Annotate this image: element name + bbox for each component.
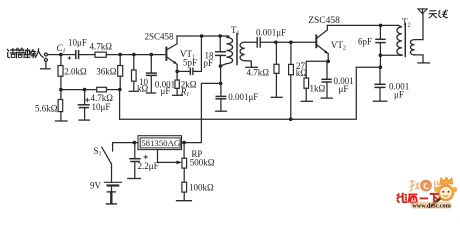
transformer T1 core [236, 34, 238, 65]
svg-text:6pF: 6pF [358, 37, 372, 47]
terminal input jack top [44, 53, 61, 56]
node junction dot rail 5pF [200, 34, 204, 38]
ground mic [41, 68, 51, 70]
ground battery [106, 192, 116, 204]
svg-text:kΩ: kΩ [137, 83, 149, 93]
capacitor 0.001uF vertical (base) [146, 55, 156, 93]
node 话筒输入 microphone input label (hand-drawn CJK) [7, 48, 43, 58]
terminal input jack bottom [44, 58, 47, 68]
transformer T1 primary winding [221, 36, 233, 66]
transformer T2 core [404, 24, 406, 57]
transformer T2 secondary winding [410, 40, 414, 55]
watermark www.dzsc.com [411, 202, 452, 210]
resistor 4.7k horizontal (series) [95, 52, 106, 57]
wire row2 [61, 89, 97, 91]
resistor 5.6k vertical [56, 90, 68, 121]
watermark 找IC片 faint orange text [409, 180, 442, 191]
resistor 10k vertical [129, 55, 138, 92]
wire IC right pin [182, 142, 185, 144]
svg-text:36kΩ: 36kΩ [96, 67, 117, 77]
wiper arrowhead [177, 161, 182, 165]
node junction dot RP top [182, 141, 186, 145]
capacitor 6pF vertical [376, 25, 385, 67]
wire [61, 54, 75, 56]
transformer T2 primary winding [397, 25, 402, 55]
wire [107, 89, 120, 91]
wire supply branch to 581350AG [184, 83, 221, 142]
resistor 2.0k vertical [58, 55, 63, 90]
resistor R1 2k vertical [173, 80, 183, 95]
svg-text:10μF: 10μF [68, 38, 87, 48]
switch S1 [102, 143, 138, 164]
capacitor 0.001uF tank [373, 67, 386, 101]
node junction dot 10k top [132, 53, 136, 57]
svg-text:581350AG: 581350AG [141, 138, 181, 148]
svg-text:4.7kΩ: 4.7kΩ [90, 41, 113, 51]
node 天线 antenna label (hand-drawn CJK) [429, 10, 448, 18]
wire [79, 54, 95, 56]
resistor 100k vertical [177, 182, 192, 201]
node junction dot row2 left [59, 88, 63, 92]
transistor VT2 ZSC458 [316, 25, 328, 61]
ground T1 secondary [246, 66, 257, 68]
capacitor 0.001uF series coupling [257, 38, 316, 47]
svg-text:2.0kΩ: 2.0kΩ [64, 67, 87, 77]
node junction dot tank bottom [379, 65, 383, 69]
svg-text:www.dzsc.com: www.dzsc.com [412, 203, 451, 209]
node junction dot 18pF bottom [219, 64, 223, 68]
svg-text:0.001μF: 0.001μF [228, 92, 258, 102]
svg-text:kΩ: kΩ [296, 68, 308, 78]
capacitor C1 10uF electrolytic [68, 51, 79, 60]
svg-text:2SC458: 2SC458 [145, 32, 175, 42]
node junction dot 27k top [289, 41, 293, 45]
svg-text:μF: μF [339, 84, 349, 94]
battery 9V [105, 164, 122, 192]
wire secondary bottom [415, 55, 423, 62]
wire 6pF bottom to T2 [380, 54, 402, 56]
node junction dot 6pF bottom [379, 53, 383, 57]
wire rail2 top right [327, 24, 398, 26]
svg-text:500kΩ: 500kΩ [190, 157, 215, 167]
capacitor 5pF horizontal [177, 36, 201, 74]
resistor 1k vertical [301, 78, 312, 101]
svg-text:ZSC458: ZSC458 [308, 16, 340, 26]
potentiometer RP 500k [182, 143, 187, 183]
resistor 36k vertical [118, 55, 123, 90]
node junction dot 2.2uF tap [133, 141, 137, 145]
svg-text:5.6kΩ: 5.6kΩ [35, 103, 58, 113]
wire secondary top [245, 41, 257, 43]
watermark mascot crown [440, 177, 453, 184]
wire rail1 collector supply [177, 35, 229, 37]
wire tank bottom to bus [356, 66, 380, 68]
wire emitter to 1k [306, 61, 328, 78]
svg-text:1kΩ: 1kΩ [310, 84, 326, 94]
wire secondary to antenna [415, 14, 423, 40]
capacitor 2.2uF electrolytic [128, 143, 148, 179]
node junction dot row2 cap [83, 88, 87, 92]
node junction dot rail 18pF [218, 34, 222, 38]
svg-text:4.7kΩ: 4.7kΩ [247, 68, 270, 78]
watermark IC seal circle [421, 180, 432, 191]
wire bus drop from row2 [120, 67, 357, 119]
wire [220, 66, 222, 83]
ground T2 secondary [418, 62, 429, 64]
svg-text:0.001μF: 0.001μF [256, 28, 286, 38]
svg-text:100kΩ: 100kΩ [189, 183, 214, 193]
watermark 维库一下 red text [397, 193, 439, 203]
node junction dot emitter VT1 [175, 70, 179, 74]
svg-text:μF: μF [161, 86, 171, 96]
svg-text:pF: pF [204, 58, 214, 68]
svg-text:9V: 9V [90, 181, 102, 191]
wire IC bottom pin to wiper [158, 150, 178, 163]
capacitor 0.001uF under T1 [216, 83, 227, 111]
capacitor 18pF vertical [216, 36, 226, 66]
resistor 27k vertical [289, 42, 294, 119]
node junction dot cap top [150, 53, 154, 57]
node junction dot emitter VT2 [326, 60, 330, 64]
transformer T1 secondary winding [240, 42, 251, 67]
capacitor 10uF vertical electrolytic [78, 90, 89, 121]
resistor 4.7k vertical right [271, 42, 282, 97]
antenna symbol [418, 9, 427, 14]
svg-text:μF: μF [394, 90, 404, 100]
resistor 4.7k horizontal row2 [97, 87, 107, 92]
svg-text:10μF: 10μF [92, 102, 111, 112]
svg-text:5pF: 5pF [183, 58, 197, 68]
node junction dot 4.7k top [274, 41, 278, 45]
wire [106, 54, 165, 56]
transistor VT1 2SC458 [166, 36, 177, 80]
watermark mascot pencil arm [428, 198, 440, 208]
watermark mascot head [434, 186, 457, 200]
node junction dot 6pF top [379, 24, 383, 28]
capacitor 0.001uF emitter bypass [321, 61, 332, 98]
node junction dot 27k at bus [289, 117, 293, 121]
node junction dot 36k top [118, 53, 122, 57]
node A junction dot main row [59, 53, 63, 57]
IC 581350AG box [138, 136, 182, 150]
svg-text:2.2μF: 2.2μF [138, 161, 159, 171]
node junction dot tap [219, 82, 223, 86]
node junction dot row2 right [118, 88, 122, 92]
